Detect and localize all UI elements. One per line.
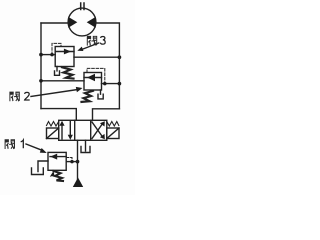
node rail-main junction — [39, 53, 43, 57]
inner fa strokes — [88, 39, 91, 45]
wire P port to pump — [77, 140, 79, 180]
valve 1 drain arrow — [50, 171, 55, 177]
left actuator spring — [47, 122, 59, 127]
valve 2 pilot dashed line — [87, 68, 105, 83]
valve 3 body — [55, 47, 74, 67]
men frame right column — [11, 139, 15, 149]
right actuator spring — [107, 122, 119, 127]
node valve2 feed junction — [39, 79, 43, 83]
motor right port triangle — [87, 17, 96, 28]
valve 1 body — [48, 152, 66, 170]
valve 1 pilot dashed line — [67, 158, 73, 162]
valve 2 body — [84, 73, 102, 91]
inner fa strokes — [6, 143, 9, 149]
valve 1 spring — [54, 171, 64, 181]
inner fa strokes — [11, 95, 14, 101]
wire valve 2 outlet — [102, 83, 120, 85]
wire valve 1 outlet to P line — [66, 161, 77, 163]
valve 3 flow arrow — [55, 49, 74, 55]
left actuator solenoid — [47, 128, 59, 139]
men frame right column — [15, 92, 19, 102]
motor left port triangle — [68, 17, 77, 28]
node valve1 pilot junction — [70, 160, 74, 164]
valve 3 spring — [62, 67, 74, 78]
directional valve left position arrows — [59, 121, 73, 140]
valve 3 pilot dashed line — [52, 43, 61, 54]
tank under T port — [81, 147, 90, 153]
men frame left column — [87, 36, 91, 46]
wire rail to valve 3 — [41, 54, 55, 56]
wire valve 3 outlet to right main — [74, 56, 119, 58]
label leader valve 3 — [77, 43, 98, 51]
label valve 2 text — [9, 92, 29, 102]
label valve 3 text — [87, 36, 105, 46]
wire T port — [85, 140, 87, 151]
valve 3 drain tank — [55, 67, 60, 76]
wire left main vertical — [40, 23, 42, 109]
men frame left column — [9, 92, 13, 102]
wire right main to valve B port — [93, 109, 120, 121]
men frame right column — [93, 36, 97, 46]
node valve3 outlet on right main — [118, 55, 122, 59]
men frame left column — [5, 139, 9, 149]
node valve2 outlet on right main — [118, 82, 122, 86]
directional valve right position crossed arrows — [92, 121, 105, 139]
right actuator solenoid — [107, 128, 119, 139]
label leader valve 1 — [26, 144, 47, 153]
node pilot junction valve 3 — [50, 53, 54, 57]
node valve2 pilot junction — [103, 82, 107, 86]
directional valve body — [59, 120, 107, 140]
motor shaft — [81, 3, 84, 10]
node P line valve1 junction — [76, 160, 80, 164]
valve 1 flow arrow — [50, 154, 66, 160]
wire valve 1 left port to tank — [38, 161, 48, 172]
pump pressure source triangle — [73, 178, 83, 188]
valve 2 drain tank — [98, 90, 103, 99]
tank valve 1 — [32, 168, 44, 175]
valve 2 flow arrow — [84, 74, 102, 81]
wire to valve A port — [41, 109, 76, 121]
directional valve square dividers — [75, 120, 91, 140]
label valve 1 text — [5, 139, 24, 149]
hydraulic motor M — [68, 8, 96, 36]
wire motor left to main — [41, 22, 68, 24]
valve 2 spring — [82, 91, 94, 102]
wire motor right to right main — [96, 23, 120, 109]
label leader valve 2 — [31, 87, 83, 97]
wire rail to valve 2 — [41, 80, 84, 82]
